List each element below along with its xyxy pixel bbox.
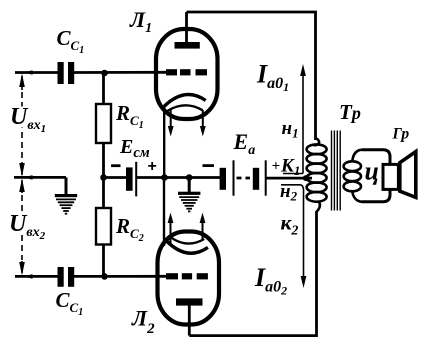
wire middle common lead	[14, 176, 66, 179]
wire RC2 bottom lead	[102, 245, 105, 277]
node ground stem	[186, 174, 193, 181]
node junction top cap / RC1	[101, 70, 108, 77]
ground right	[178, 192, 200, 212]
tube L1 heater arc	[167, 105, 202, 111]
tube L2 heater lead right with arrow	[200, 213, 206, 241]
wire RC1 top lead	[102, 73, 105, 104]
node junction bottom cap / RC2	[101, 273, 108, 280]
wire secondary loop to voice coil	[362, 150, 390, 202]
resistor RC2	[96, 208, 111, 245]
wire grid lead tube L1	[74, 71, 166, 74]
battery Ea cell1 thin plate	[233, 160, 235, 195]
tube L1 cathode lead	[163, 107, 165, 178]
wire bottom rail	[189, 211, 316, 336]
wire RC1 bottom lead	[102, 143, 105, 178]
wire cathode node to ground node	[165, 176, 190, 179]
label Uvx2	[13, 214, 35, 235]
tube L2 grid dashes	[166, 273, 208, 279]
wire corner to left ground	[65, 177, 68, 195]
node RC1 / Esm rail	[100, 174, 107, 181]
transformer primary winding	[307, 138, 327, 212]
arrowhead on middle lead	[24, 175, 33, 180]
battery Esm thin plate	[135, 162, 137, 197]
current arrow Ia02	[300, 185, 306, 288]
wire top rail	[187, 12, 316, 140]
current arrow Ia01	[300, 64, 306, 174]
battery Esm thick plate	[126, 167, 133, 190]
label k1 underline	[283, 173, 303, 175]
capacitor CC1 top	[58, 62, 75, 84]
svg-text:Гр: Гр	[392, 126, 410, 143]
capacitor CC1 bottom	[58, 267, 75, 287]
dash-dot measuring line Uvx2	[19, 179, 25, 276]
svg-text:Тр: Тр	[339, 100, 361, 124]
node cathodes	[161, 174, 168, 181]
wire RC2 top lead	[102, 178, 105, 209]
battery Ea cell2 thin plate	[265, 160, 267, 195]
tube L2 cathode arc	[166, 240, 208, 253]
tube L2 anode	[176, 298, 203, 305]
wire rail to Esm	[104, 176, 127, 179]
tube L1 anode lead	[185, 12, 188, 44]
wire bottom input lead	[15, 275, 58, 278]
tube L2 heater arc	[171, 237, 205, 243]
svg-text:+: +	[148, 158, 157, 175]
arrowhead on top input wire	[24, 70, 33, 75]
dash-dot measuring line Uvx1	[19, 74, 25, 177]
tube L1 cathode arc	[164, 94, 206, 106]
tube L1 heater lead right with arrow	[200, 110, 206, 137]
wire ground stem	[188, 178, 191, 193]
tube L2 anode lead	[188, 303, 191, 336]
tube L1 heater lead left with arrow	[168, 110, 174, 137]
wire Esm to cathode node	[136, 176, 164, 179]
wire top input lead	[15, 71, 58, 74]
battery Ea cell1 thick plate	[220, 168, 226, 190]
tube L1 envelope	[156, 29, 218, 119]
speaker voice coil box	[383, 164, 398, 189]
tube L2 heater lead left with arrow	[168, 213, 174, 244]
node center tap	[303, 175, 310, 181]
tube L2 cathode lead	[163, 178, 165, 247]
tube L1 grid dashes	[166, 69, 207, 75]
ground left	[55, 194, 77, 214]
transformer secondary winding	[344, 150, 363, 202]
tube L2 envelope	[158, 232, 220, 325]
wire ground node to Ea	[189, 176, 220, 179]
speaker cone	[400, 152, 416, 198]
transformer core	[332, 131, 341, 211]
wire dashed between Ea cells	[237, 177, 251, 180]
arrowhead on bottom input wire	[24, 274, 33, 279]
resistor RC1	[96, 104, 111, 143]
tube L1 anode	[175, 42, 200, 49]
svg-text:ц: ц	[365, 157, 379, 186]
wire grid lead tube L2	[74, 275, 166, 278]
wire Ea to center tap	[266, 177, 312, 180]
battery Ea cell2 thick plate	[253, 168, 259, 190]
label Uvx1	[13, 107, 35, 128]
svg-text:+: +	[272, 159, 281, 175]
label n2 with overline	[281, 184, 300, 186]
label minus Ea	[203, 164, 215, 167]
label minus Esm	[111, 164, 121, 167]
